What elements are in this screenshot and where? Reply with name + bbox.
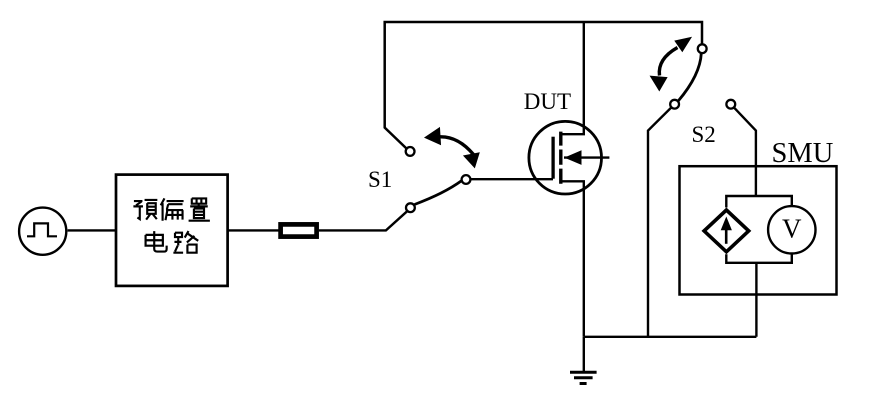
svg-text:S1: S1	[368, 167, 392, 192]
svg-text:SMU: SMU	[772, 138, 834, 169]
svg-text:V: V	[782, 213, 802, 243]
svg-text:S2: S2	[692, 122, 716, 147]
svg-text:DUT: DUT	[524, 89, 571, 114]
